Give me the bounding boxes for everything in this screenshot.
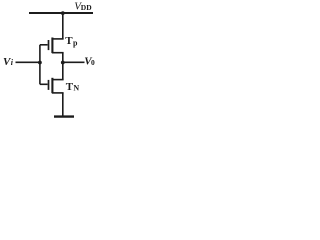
svg-text:T: T [65, 35, 73, 47]
transistor Tp [40, 38, 64, 54]
wire rail to PMOS source [62, 13, 64, 39]
wire gate bus [39, 45, 41, 85]
svg-text:p: p [73, 38, 78, 47]
label VDD [74, 0, 92, 12]
node junction dot on rail [61, 11, 65, 15]
svg-text:0: 0 [91, 58, 95, 67]
wire PMOS drain to output node [62, 53, 64, 80]
label Vi [3, 56, 14, 68]
node Vi junction dot [38, 61, 42, 65]
svg-text:DD: DD [81, 3, 92, 12]
ground [54, 115, 74, 117]
wire output node to Vo [63, 61, 85, 63]
label Vo [84, 56, 95, 68]
wire NMOS source to ground [62, 93, 64, 116]
label TN [66, 81, 80, 93]
transistor TN [40, 78, 64, 93]
svg-text:N: N [73, 84, 79, 93]
wire VDD rail [29, 12, 93, 14]
label Tp [65, 35, 78, 47]
wire Vi lead [16, 61, 41, 63]
node output junction dot [61, 61, 65, 65]
